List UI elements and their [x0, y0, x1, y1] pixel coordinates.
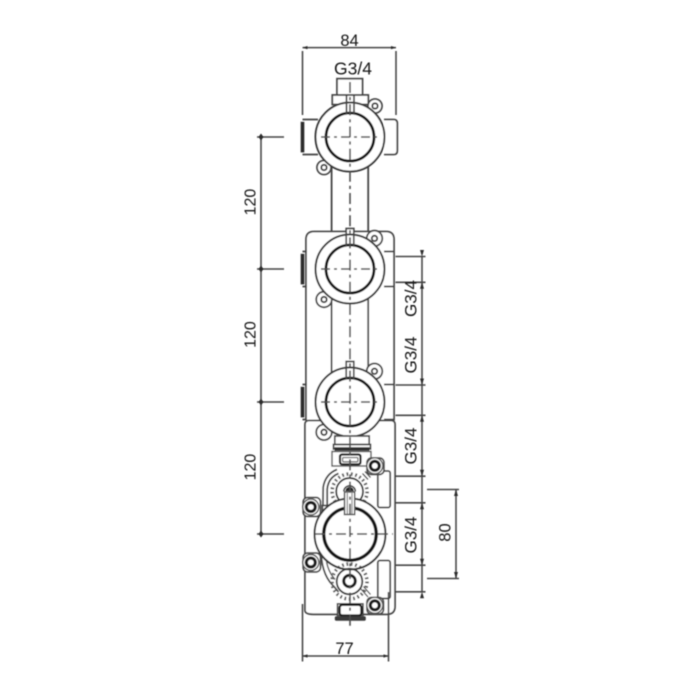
port P4 horizontal centerline — [315, 533, 393, 535]
mixer cartridge block — [332, 452, 371, 467]
temperature ring inner circle — [336, 478, 363, 505]
port P3 ear top-right — [367, 364, 383, 380]
mixer gasket dark band — [335, 447, 370, 451]
svg-text:120: 120 — [243, 321, 260, 348]
port P3 right stub edges — [384, 385, 394, 420]
svg-text:G3/4: G3/4 — [402, 428, 421, 465]
port P1 key notch — [347, 95, 355, 114]
mixer screw bottom-right — [367, 597, 383, 613]
left chain extension P2 — [257, 268, 284, 270]
centerline vertical main axis — [349, 82, 351, 626]
temperature index dome — [344, 486, 356, 492]
port P2 left stub — [303, 252, 308, 287]
dimension 84 arrows — [303, 46, 397, 49]
mixer left lever crescent — [323, 470, 337, 507]
port P3 ear holes — [321, 369, 377, 435]
svg-text:G3/4: G3/4 — [334, 59, 372, 79]
left chain extension P3 — [257, 401, 284, 403]
right G3/4 chain line — [421, 256, 423, 592]
flow knurled ring bottom — [332, 564, 367, 599]
mixer screw pad left-top — [303, 498, 320, 517]
temperature knurled ring — [332, 474, 367, 509]
port P2 key notch — [346, 229, 354, 241]
port P1 right stub — [384, 120, 397, 155]
port P2 right stub edges — [384, 252, 394, 287]
port P1 ear top-right — [368, 99, 382, 113]
port P3 ear bottom-left — [316, 425, 332, 441]
port P1 bore circle — [326, 113, 374, 161]
left dimension chain line — [260, 137, 262, 534]
port P1 left stub — [303, 120, 319, 155]
G3/4 chain extensions mixer cold — [396, 565, 426, 592]
port P2 ear bottom-left — [316, 292, 332, 308]
svg-text:G3/4: G3/4 — [402, 280, 421, 317]
svg-text:120: 120 — [243, 454, 260, 481]
dimension 80 arrows — [454, 490, 458, 579]
svg-text:80: 80 — [437, 523, 455, 541]
mixer screw pad bottom-right — [367, 598, 384, 615]
flow center screw — [344, 575, 356, 587]
port P4 outlet bore circle — [324, 508, 376, 560]
port P2 ear holes — [321, 236, 377, 302]
mixer screw pad top-right — [367, 458, 384, 475]
dimension 77 extensions — [303, 592, 389, 662]
port P1 outer circle — [316, 103, 385, 172]
lower mixer housing plate — [305, 421, 395, 615]
bottom outlet dark collar — [340, 605, 362, 616]
mixer right port box hot — [378, 471, 390, 508]
dimension 84 line — [303, 48, 397, 115]
dimension 77 arrows — [303, 654, 389, 657]
port P3 key notch — [346, 362, 354, 374]
G3/4 chain extensions port P3 — [396, 385, 426, 415]
svg-text:120: 120 — [243, 189, 260, 216]
svg-text:77: 77 — [335, 640, 353, 658]
port P3 key notch inner lines — [346, 367, 354, 379]
port P3 bore circle — [326, 378, 374, 426]
port P4 outer circle bottom arc overlay — [319, 552, 380, 570]
bottom outlet bracket — [338, 604, 364, 616]
left chain extension P1 — [257, 136, 284, 138]
body tube between port1 and port2 — [332, 164, 369, 232]
body tube between port2 and port3 — [332, 296, 369, 372]
top inlet stub G3/4 — [332, 79, 368, 105]
G3/4 chain extensions port P2 — [396, 257, 426, 283]
mixer left lobe outline — [321, 528, 338, 592]
mixer neck lower — [334, 445, 371, 450]
mixer screw top-right — [367, 458, 383, 474]
port P2 key notch inner lines — [346, 234, 354, 246]
upper mounting plate behind ports 2 and 3 — [306, 232, 394, 421]
dimension 80 extensions — [427, 490, 459, 579]
port P4 outer circle — [315, 499, 386, 570]
G3/4 chain extensions mixer hot — [396, 476, 426, 503]
port P2 ear top-right — [367, 231, 383, 247]
left chain tick marks — [259, 134, 264, 538]
G3/4 chain arrows — [420, 250, 424, 598]
mixer screw left-bottom — [303, 555, 319, 571]
port P1 horizontal centerline — [321, 136, 379, 138]
port P1 ear bottom-left — [317, 161, 331, 175]
bottom foot dark band — [335, 616, 366, 620]
port P2 outer circle — [316, 235, 385, 304]
port P2 horizontal centerline — [321, 268, 379, 270]
strut to top-right screw — [363, 472, 371, 480]
flow screw white center restore — [347, 579, 352, 584]
temperature spindle — [345, 492, 355, 515]
svg-text:84: 84 — [340, 32, 358, 50]
port P1 ear holes — [321, 103, 377, 170]
svg-text:G3/4: G3/4 — [402, 517, 421, 554]
flow ring inner circle — [337, 569, 363, 595]
mixer screw left-top — [303, 499, 319, 515]
left chain extension P4 — [257, 533, 284, 535]
port P3 left stub — [303, 385, 308, 420]
strut to bottom-right screw — [361, 587, 371, 598]
svg-text:G3/4: G3/4 — [402, 337, 421, 374]
mixer clamp window — [340, 455, 361, 465]
port P3 horizontal centerline — [321, 401, 379, 403]
mixer neck upper — [335, 436, 369, 445]
mixer right port box cold — [378, 561, 390, 599]
mixer screw pad left-bottom — [303, 553, 320, 572]
port P3 outer circle — [316, 368, 385, 437]
mixer lever bar — [322, 506, 327, 513]
port P2 bore circle — [326, 245, 374, 293]
